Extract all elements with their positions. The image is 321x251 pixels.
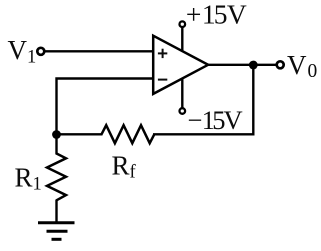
terminal V0 [277, 61, 284, 68]
output node junction dot [249, 61, 258, 70]
resistor R1 [47, 154, 66, 201]
wire +15V supply to op-amp top [181, 27, 183, 53]
wire output node down and left to resistor Rf [153, 65, 253, 134]
resistor Rf [102, 125, 155, 143]
wire op-amp - input left then down to node A [57, 79, 156, 137]
terminal +15V supply [180, 21, 186, 27]
wire resistor R1 to ground [55, 200, 57, 224]
svg-text:−15V: −15V [188, 105, 243, 135]
op-amp - input marking [158, 79, 167, 81]
op-amp U1 [153, 36, 208, 94]
wire op-amp bottom to -15V supply [181, 78, 183, 109]
ground [38, 223, 75, 240]
node A junction dot [52, 130, 61, 139]
wire op-amp output to V0 terminal [206, 64, 277, 66]
terminal -15V supply [180, 108, 186, 114]
terminal V1 [37, 48, 44, 55]
wire node A down to resistor R1 [55, 133, 57, 155]
op-amp + input marking [158, 49, 167, 58]
svg-text:+15V: +15V [186, 0, 247, 29]
wire V1 terminal to op-amp + input [44, 50, 156, 52]
wire node A to resistor Rf left end [56, 133, 103, 135]
